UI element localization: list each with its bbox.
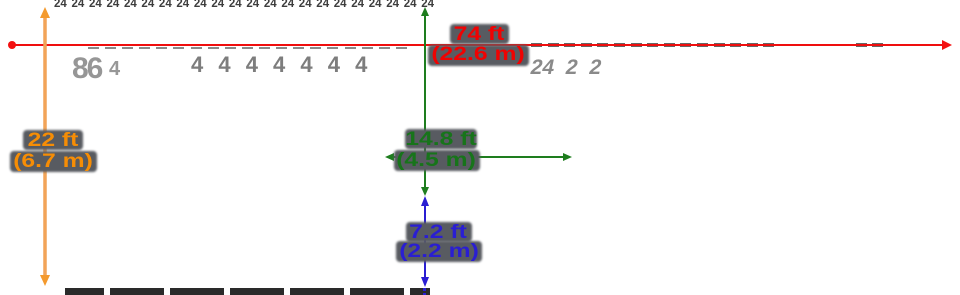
green down arrowhead [421, 187, 429, 196]
remnant tick marks along red line [88, 47, 99, 49]
label patch 4.4m [394, 150, 480, 171]
label patch 22ft [23, 130, 83, 150]
label (4.4 m) [396, 151, 476, 170]
orange up arrowhead [40, 7, 50, 18]
green left arrowhead [385, 153, 394, 161]
green up arrowhead [421, 7, 429, 16]
faint gray glyphs right of red label [528, 56, 633, 81]
gray blob remnant [72, 52, 108, 82]
wire: green horizontal dimension line [388, 156, 569, 158]
clipped dark digit row (top remnant) [54, 0, 446, 9]
label patch 22.6m [428, 45, 529, 66]
label (6.7 m) [13, 152, 93, 171]
label (2.2 m) [399, 242, 479, 261]
label patch 74ft [450, 24, 509, 44]
label patch 6.7m [10, 151, 97, 172]
wire: green vertical dimension line (14.5 ft) [424, 12, 426, 192]
orange down arrowhead [40, 275, 50, 286]
wire: blue vertical dimension line (7.2 ft) [424, 200, 426, 283]
small gray mark [109, 58, 123, 78]
right arrowhead (red) [942, 40, 952, 50]
bottom dark band remnant [65, 288, 430, 295]
blue up arrowhead [421, 196, 429, 206]
wire: red horizontal dimension line (74 ft) [12, 44, 950, 46]
label patch 14.5ft [405, 129, 477, 149]
wire: orange vertical dimension line (22 ft) [43, 12, 47, 281]
label 14.5 ft [405, 130, 476, 149]
blue down arrowhead [421, 277, 429, 287]
label (22.6 m) [431, 45, 524, 64]
label patch 2.2m [396, 241, 482, 262]
faint gray glyph row (mid remnant) [191, 52, 391, 74]
green right arrowhead [563, 153, 572, 161]
label patch 7.2ft [406, 222, 472, 242]
left arrowhead (red dot) [8, 41, 16, 49]
label 22 ft [28, 131, 79, 150]
label 7.2 ft [409, 223, 467, 242]
label 74 ft [454, 25, 505, 44]
blue bottom dash remnant [423, 288, 426, 291]
